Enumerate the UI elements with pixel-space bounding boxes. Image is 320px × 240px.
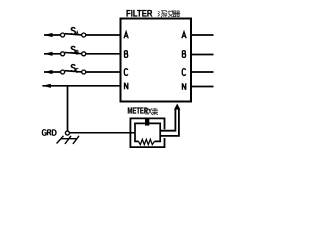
svg-text:FILTER: FILTER (126, 9, 152, 19)
